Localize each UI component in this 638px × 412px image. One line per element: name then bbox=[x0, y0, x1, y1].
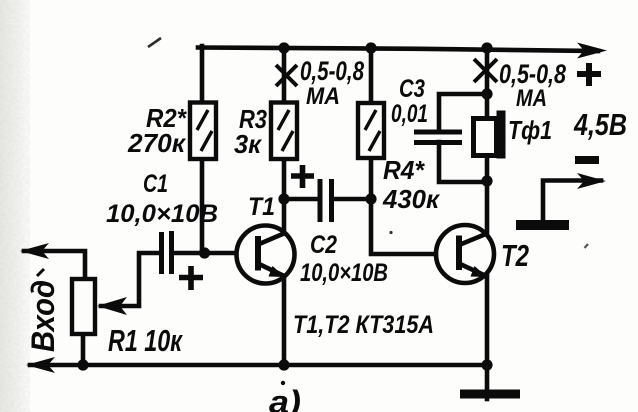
stray pen mark top bbox=[148, 38, 161, 47]
junction R1 bottom rail bbox=[77, 359, 88, 370]
battery minus sign bbox=[575, 156, 599, 164]
junction T2 emitter / ground node bbox=[481, 359, 492, 370]
C2 polarity plus bbox=[291, 165, 314, 188]
wire T1 emitter bbox=[282, 276, 287, 365]
arrow input bottom bbox=[26, 357, 55, 373]
junction C3 / Tf1 bottom node bbox=[481, 175, 492, 186]
junction T1 emitter bottom rail bbox=[278, 359, 289, 370]
resistor R1 potentiometer body bbox=[72, 279, 95, 334]
junction R4 / C2 / T2 base node bbox=[365, 193, 376, 204]
junction R2 / C1 / T1 base node bbox=[199, 247, 210, 258]
svg-text:R4*: R4* bbox=[383, 155, 426, 185]
svg-text:0,01: 0,01 bbox=[391, 100, 428, 128]
capacitor C1 plates bbox=[162, 231, 172, 274]
svg-text:270к: 270к bbox=[127, 128, 187, 158]
ground symbol battery minus bbox=[516, 220, 569, 230]
svg-text:Вход: Вход bbox=[25, 280, 61, 352]
wire C3 bottom link bbox=[439, 142, 487, 182]
wire top supply rail bbox=[198, 48, 598, 52]
capacitor C2 plates bbox=[320, 179, 332, 222]
svg-text:Т1,Т2 КТ315А: Т1,Т2 КТ315А bbox=[293, 311, 434, 339]
resistor R4 body bbox=[358, 103, 384, 158]
wire C3 top link bbox=[439, 94, 487, 132]
ground symbol bottom bbox=[460, 390, 520, 399]
junction Tf1 branch top rail bbox=[481, 42, 492, 53]
arrow R1 wiper bbox=[97, 297, 127, 315]
input dash mark bbox=[37, 269, 44, 276]
resistor R2 body bbox=[190, 103, 216, 160]
junction C3 / Tf1 top node bbox=[481, 88, 492, 99]
wire R4 bottom to node bbox=[369, 158, 374, 199]
break mark x left (0.5-0.8 mA) bbox=[276, 65, 297, 86]
arrow input top bbox=[20, 243, 49, 259]
junction R4 top rail bbox=[365, 42, 376, 53]
wire R1 bottom bbox=[81, 334, 86, 365]
transistor T2 bbox=[436, 225, 494, 283]
resistor R3 body bbox=[271, 103, 297, 160]
svg-text:МА: МА bbox=[306, 83, 340, 110]
svg-text:а): а) bbox=[269, 384, 301, 412]
wire T2 emitter bbox=[485, 276, 490, 365]
svg-text:С3: С3 bbox=[399, 75, 425, 103]
svg-text:430к: 430к bbox=[382, 184, 441, 214]
wire battery minus lead bbox=[543, 181, 601, 222]
wire ground stub bottom bbox=[485, 365, 490, 399]
T1 emitter arrow bbox=[269, 266, 286, 277]
svg-text:4,5В: 4,5В bbox=[573, 107, 627, 142]
wire R3 top drop bbox=[282, 48, 287, 104]
svg-text:С2: С2 bbox=[310, 231, 337, 259]
arrow battery minus bbox=[577, 173, 606, 189]
wire R2 bottom to base node bbox=[200, 160, 205, 253]
wire phone branch top bbox=[485, 48, 490, 118]
ink speck right of T2 bbox=[585, 244, 589, 248]
junction R3 top rail bbox=[278, 42, 289, 53]
wire node to T2 base bbox=[371, 199, 458, 254]
svg-text:Т1: Т1 bbox=[248, 193, 275, 221]
svg-text:Т2: Т2 bbox=[501, 238, 529, 273]
wire R2 top drop bbox=[200, 46, 205, 104]
transistor T1 bbox=[237, 226, 295, 284]
junction R3 / C2 / T1 collector node bbox=[278, 193, 289, 204]
svg-text:С1: С1 bbox=[143, 170, 168, 198]
svg-text:10,0×10В: 10,0×10В bbox=[300, 259, 388, 287]
svg-text:Тф1: Тф1 bbox=[508, 115, 552, 145]
svg-text:МА: МА bbox=[516, 85, 547, 112]
svg-text:R1 10к: R1 10к bbox=[108, 323, 183, 358]
break mark x right (0.5-0.8 mA) bbox=[474, 59, 497, 82]
scan noise left edge bbox=[0, 0, 1, 1]
wire phone branch bottom bbox=[485, 156, 490, 181]
earphone Tf1 bbox=[474, 111, 506, 159]
wire R3 bottom to collector node bbox=[282, 160, 287, 199]
wire wiper to C1 bbox=[101, 253, 160, 306]
capacitor C3 plates bbox=[414, 132, 462, 143]
wire C2 right bbox=[334, 197, 371, 202]
wire T1 collector bbox=[282, 199, 287, 234]
wire C2 left bbox=[284, 197, 317, 202]
svg-text:10,0×10В: 10,0×10В bbox=[106, 200, 218, 228]
svg-text:3к: 3к bbox=[234, 129, 263, 159]
arrow top rail output bbox=[577, 43, 607, 59]
dot above a) bbox=[281, 381, 285, 385]
wire input top bbox=[24, 251, 85, 279]
svg-text:0,5-0,8: 0,5-0,8 bbox=[300, 56, 364, 86]
wire T1 base feed bbox=[176, 251, 259, 256]
ink speck near C2 label bbox=[389, 231, 392, 234]
T2 emitter arrow bbox=[471, 266, 488, 277]
wire bottom ground rail bbox=[30, 363, 487, 368]
wire T2 collector bbox=[485, 181, 490, 235]
wire R4 top drop bbox=[369, 48, 374, 103]
battery plus sign bbox=[577, 63, 601, 86]
C1 polarity plus bbox=[179, 266, 203, 290]
